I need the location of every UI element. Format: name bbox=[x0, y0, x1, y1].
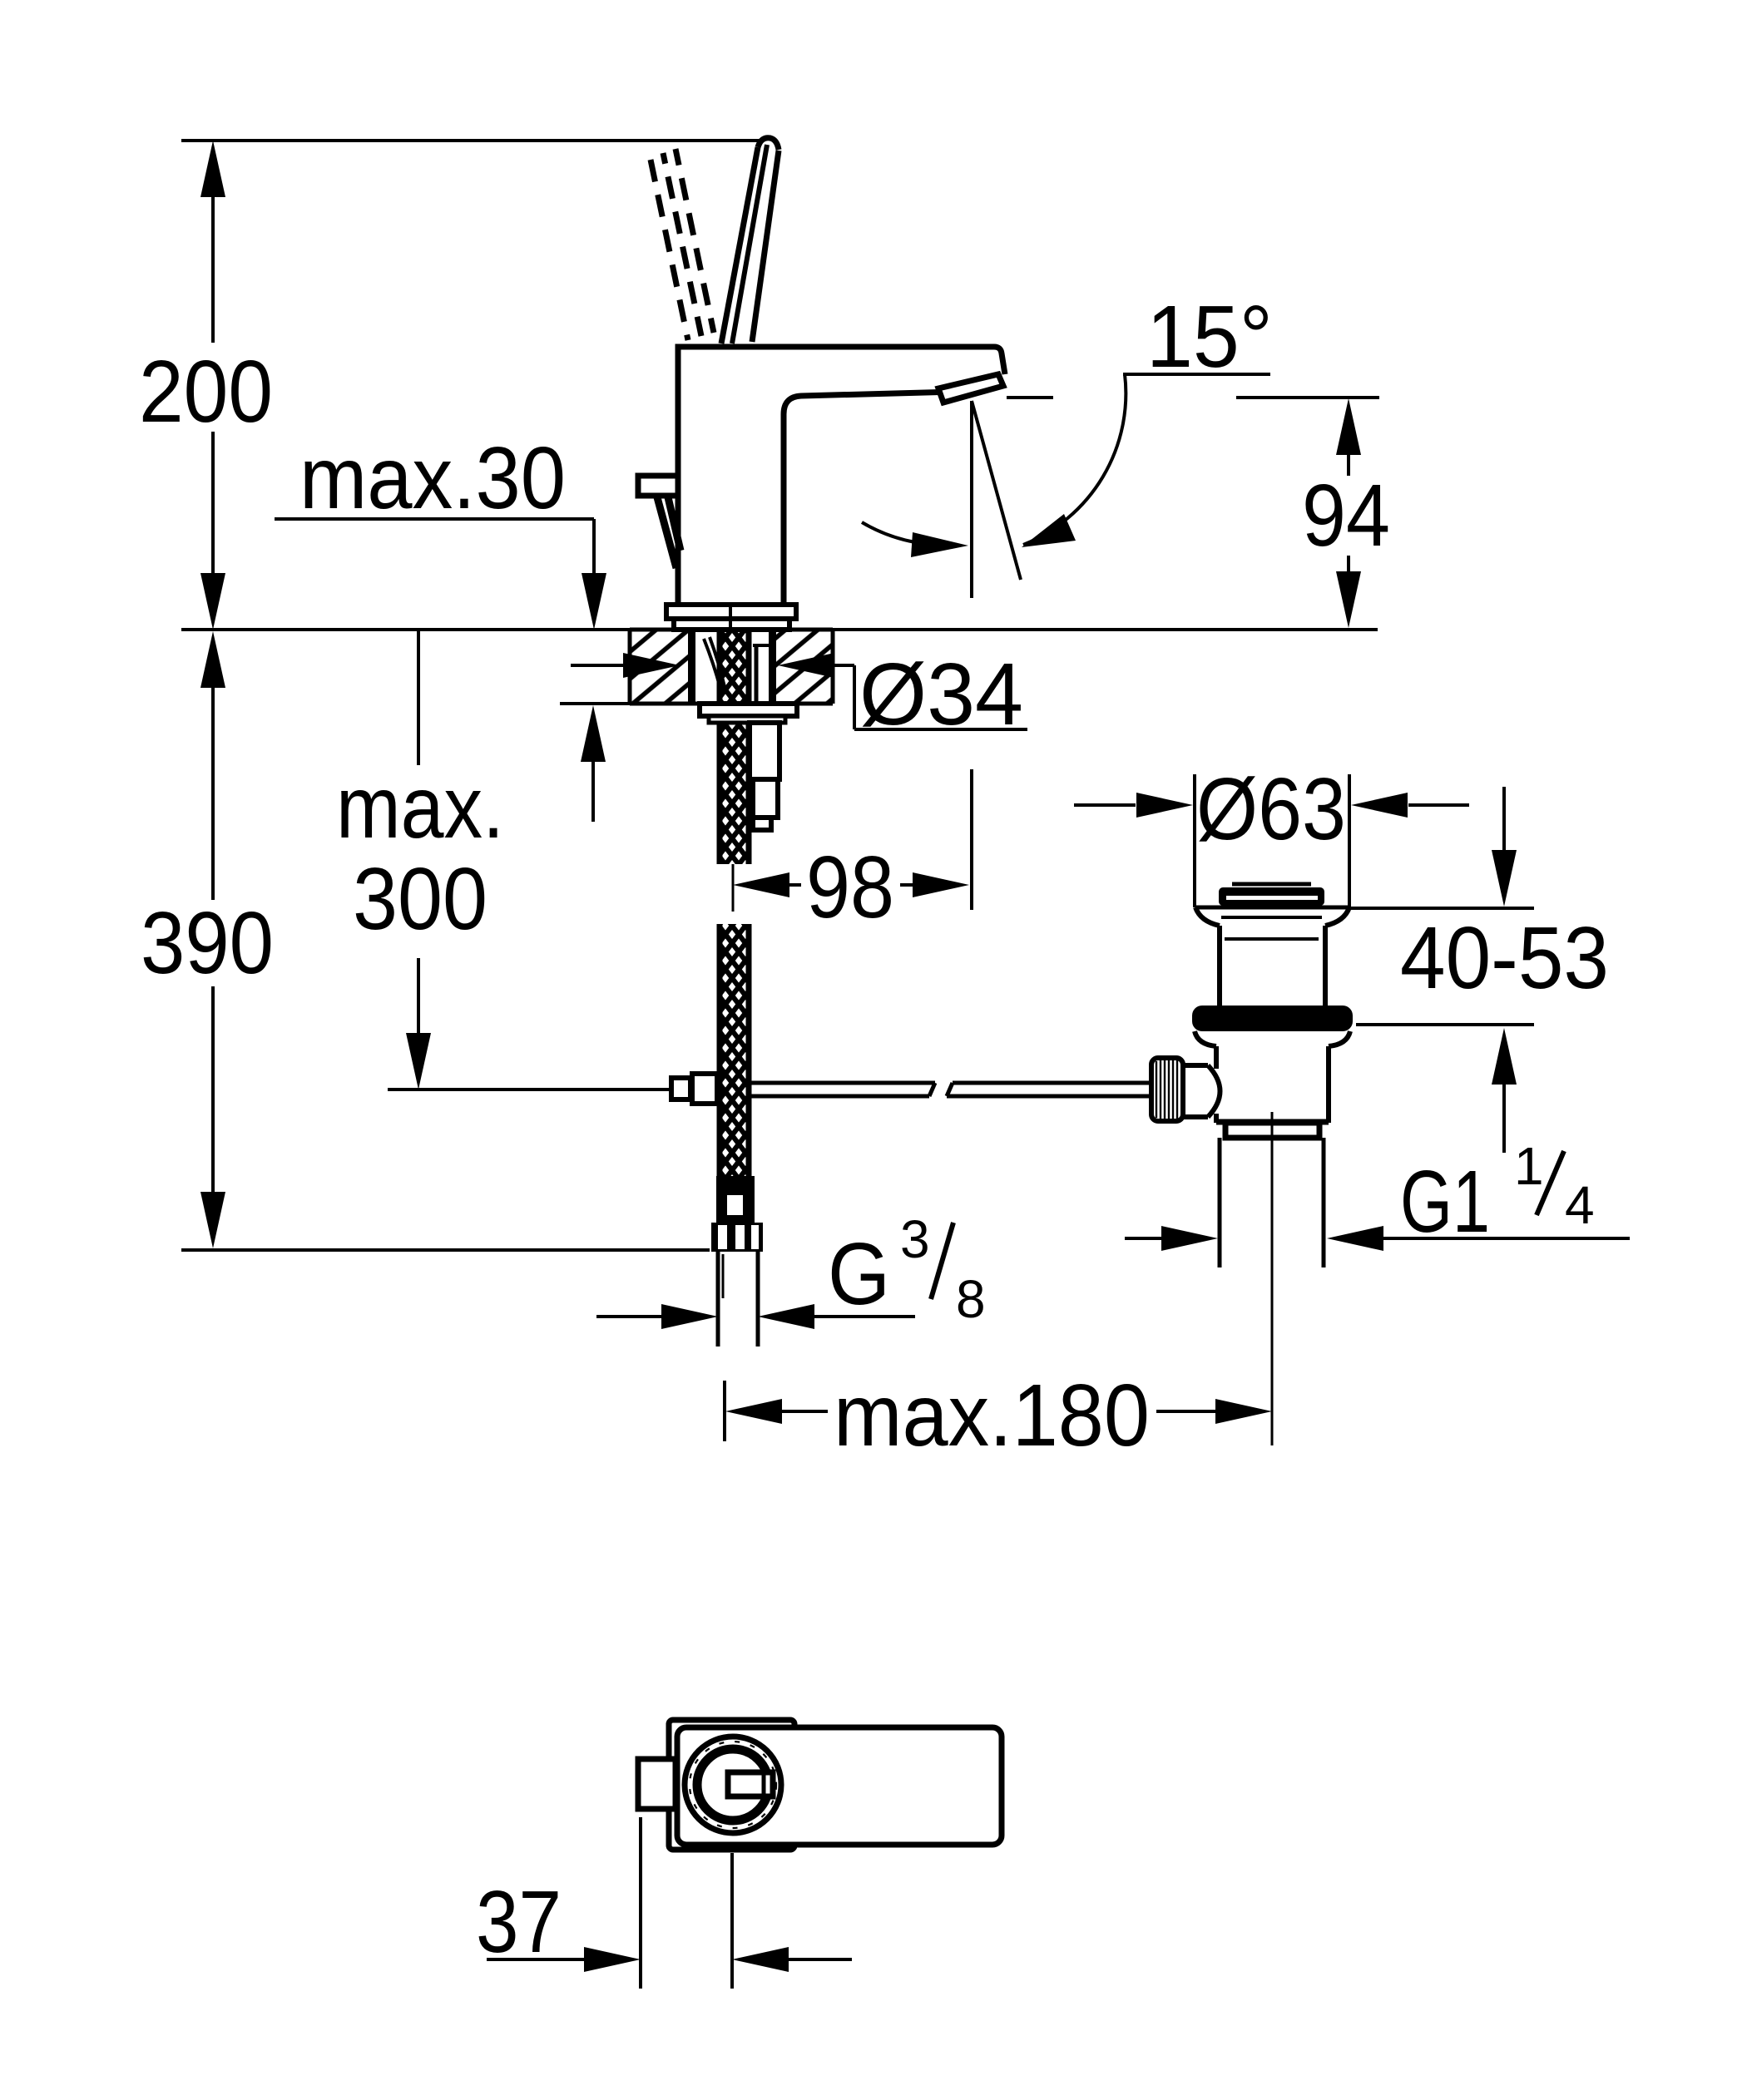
15 degree annotation bbox=[862, 288, 1273, 598]
handle (solid, tilted right) bbox=[721, 138, 779, 343]
faucet base plate bbox=[666, 605, 796, 630]
aerator at spout tip bbox=[938, 374, 1003, 403]
svg-text:15°: 15° bbox=[1146, 288, 1273, 386]
drain pop-up cap bbox=[1219, 884, 1324, 906]
faucet shank cut walls bbox=[688, 630, 776, 704]
svg-text:37: 37 bbox=[476, 1873, 562, 1971]
drain body below seal bbox=[1195, 1031, 1350, 1123]
bottom view: lever tab bbox=[638, 1759, 676, 1809]
svg-text:G: G bbox=[828, 1225, 890, 1323]
svg-text:8: 8 bbox=[956, 1269, 986, 1329]
braided supply hose (upper section) bbox=[719, 632, 750, 864]
svg-text:Ø63: Ø63 bbox=[1196, 760, 1346, 858]
dimension max. 300 bbox=[336, 631, 504, 1090]
dimension 390 bbox=[141, 631, 710, 1250]
dimension 94 bbox=[1007, 398, 1390, 628]
svg-text:98: 98 bbox=[806, 838, 894, 936]
braided supply hose (lower section) bbox=[719, 924, 750, 1176]
dimension 98 bbox=[733, 769, 972, 936]
dimension max.30 bbox=[275, 429, 606, 822]
countertop surface line bbox=[181, 628, 1378, 631]
pop-up rod horizontal line bbox=[388, 1074, 717, 1104]
svg-text:max.30: max.30 bbox=[299, 429, 566, 527]
svg-text:1: 1 bbox=[1514, 1136, 1544, 1196]
svg-text:4: 4 bbox=[1565, 1175, 1595, 1235]
dimension max.180 bbox=[725, 1366, 1272, 1465]
dimension diameter 34 bbox=[571, 645, 1027, 744]
svg-text:40-53: 40-53 bbox=[1400, 909, 1609, 1007]
top reference line (200 dim) bbox=[181, 139, 760, 142]
svg-text:max.180: max.180 bbox=[834, 1366, 1150, 1465]
mounting washer and nut below countertop bbox=[700, 704, 797, 830]
svg-text:Ø34: Ø34 bbox=[859, 645, 1023, 744]
dimension G1 1/4 bbox=[1125, 1136, 1630, 1251]
svg-text:max.: max. bbox=[336, 758, 504, 857]
drain centerline bbox=[1271, 1112, 1274, 1445]
drain: diameter 63 dimension bbox=[1074, 760, 1469, 907]
drain outlet pipe G1 1/4 bbox=[1220, 1138, 1324, 1267]
svg-text:G1: G1 bbox=[1400, 1153, 1490, 1251]
drain rubber seal bbox=[1192, 1006, 1353, 1031]
hose end connector bbox=[711, 1176, 763, 1252]
G 3/8 pipe bbox=[718, 1252, 758, 1346]
svg-text:3: 3 bbox=[900, 1209, 930, 1269]
svg-text:94: 94 bbox=[1302, 467, 1390, 565]
dimension G 3/8 bbox=[596, 1209, 986, 1329]
dimension 37 bbox=[476, 1817, 852, 1989]
handle (dashed, tilted left position) bbox=[651, 149, 714, 340]
bottom view: body square bbox=[669, 1720, 794, 1850]
svg-text:200: 200 bbox=[139, 343, 273, 441]
bottom view: spout rectangle bbox=[677, 1727, 1002, 1845]
bottom view: cartridge circles bbox=[685, 1737, 781, 1833]
dimension 40-53 bbox=[1349, 787, 1609, 1153]
pop-up lever on faucet bbox=[638, 476, 681, 568]
faucet spout underside bbox=[784, 392, 957, 604]
drain outlet collar bbox=[1225, 1123, 1319, 1138]
drain body bottom edge bbox=[1216, 1119, 1329, 1125]
dimension 200 bbox=[139, 141, 273, 630]
svg-text:300: 300 bbox=[353, 850, 487, 948]
drain upper flange bbox=[1195, 907, 1349, 1006]
faucet body outline bbox=[678, 347, 1005, 605]
knurled adjustment knob bbox=[1151, 1058, 1220, 1121]
svg-text:390: 390 bbox=[141, 894, 274, 992]
countertop slab cross-section bbox=[560, 630, 833, 704]
pop-up rod (right section with break) bbox=[751, 1083, 1151, 1096]
